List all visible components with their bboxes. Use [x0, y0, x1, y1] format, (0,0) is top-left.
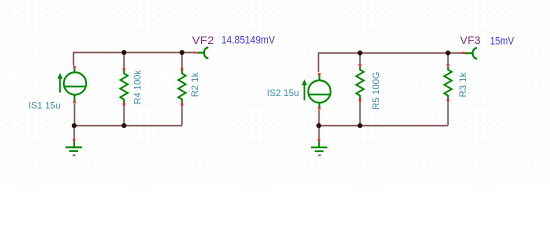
- junction node bottom rail R4: [122, 123, 127, 128]
- wire ground stub left: [73, 126, 75, 139]
- svg-text:IS1 15u: IS1 15u: [29, 100, 61, 111]
- svg-text:R4 100k: R4 100k: [132, 70, 143, 104]
- pin mark IS2 top: [318, 73, 321, 76]
- pin mark R5 bottom: [359, 99, 362, 102]
- wire R3 top: [447, 53, 449, 64]
- wire bottom rail right circuit: [319, 125, 448, 127]
- current source IS1: [57, 69, 86, 102]
- ground right circuit: [311, 141, 327, 155]
- pin mark VF3: [462, 52, 465, 54]
- pin mark VF2: [194, 52, 197, 54]
- pin mark R2 top: [181, 68, 184, 71]
- pin mark IS2 bottom: [318, 107, 321, 110]
- pin mark R3 bottom: [447, 99, 450, 102]
- resistor R4: [120, 71, 127, 104]
- wire R4 top: [123, 53, 125, 69]
- wire R4 bottom: [123, 106, 125, 126]
- wire IS1 bottom to bottom rail: [74, 104, 76, 126]
- wire ground stub right: [318, 126, 320, 139]
- svg-text:VF3: VF3: [460, 35, 481, 47]
- junction node top rail R3: [446, 51, 451, 56]
- svg-text:VF2: VF2: [192, 35, 214, 47]
- voltage pin VF2: [197, 48, 208, 59]
- resistor R3: [444, 67, 451, 99]
- wire R3 bottom: [447, 102, 449, 126]
- pin mark ground right: [318, 139, 321, 142]
- junction node top rail R5: [358, 51, 363, 56]
- wire bottom rail left circuit: [74, 125, 182, 127]
- svg-text:R3 1k: R3 1k: [457, 72, 468, 97]
- pin mark IS1 bottom: [73, 101, 76, 104]
- pin mark R5 top: [359, 64, 362, 67]
- junction node bottom rail IS1: [72, 123, 77, 128]
- pin mark ground left: [73, 139, 76, 142]
- pin mark R4 top: [123, 68, 126, 71]
- wire R2 bottom: [181, 106, 183, 126]
- svg-text:R2 1k: R2 1k: [189, 72, 200, 97]
- junction node bottom rail R5: [358, 123, 363, 128]
- junction node top rail R4: [122, 50, 127, 55]
- wire top rail right circuit: [319, 53, 464, 72]
- pin mark R4 bottom: [123, 103, 126, 106]
- wire top rail left circuit: [74, 53, 195, 66]
- pin mark IS1 top: [73, 66, 76, 69]
- ground left circuit: [66, 141, 82, 155]
- svg-text:IS2 15u: IS2 15u: [267, 87, 299, 98]
- svg-text:15mV: 15mV: [490, 36, 515, 48]
- wire R2 top: [181, 53, 183, 69]
- wire R5 bottom: [359, 102, 361, 126]
- junction node top rail R2: [180, 50, 185, 55]
- resistor R2: [178, 71, 185, 104]
- resistor R5: [356, 67, 363, 99]
- wire R5 top: [359, 53, 361, 64]
- junction node bottom rail IS2: [316, 123, 321, 128]
- wire IS2 bottom to bottom rail: [318, 110, 320, 126]
- svg-text:R5 100G: R5 100G: [370, 72, 381, 110]
- pin mark R2 bottom: [181, 103, 184, 106]
- svg-text:14.85149mV: 14.85149mV: [221, 35, 275, 47]
- voltage pin VF3: [465, 48, 477, 59]
- pin mark R3 top: [447, 64, 450, 67]
- current source IS2: [302, 76, 331, 108]
